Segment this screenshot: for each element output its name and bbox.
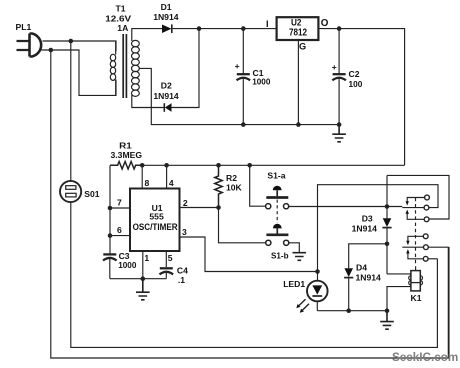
- svg-text:R1: R1: [119, 141, 132, 151]
- svg-text:1: 1: [144, 253, 149, 263]
- node dot D4 bottom: [346, 308, 351, 313]
- label C2 100 plus: [332, 62, 363, 89]
- node dot rail pin4: [164, 163, 169, 168]
- node dot pin7 tap: [108, 206, 113, 211]
- wire plug bottom to primary bottom loop-around: [42, 50, 117, 95]
- svg-text:D3: D3: [362, 214, 373, 224]
- svg-text:T1: T1: [116, 4, 126, 14]
- svg-text:1000: 1000: [118, 260, 136, 270]
- wire pin 7: [110, 207, 130, 209]
- wire secondary bottom to D2 anode: [132, 95, 165, 108]
- svg-text:D1: D1: [161, 2, 172, 12]
- svg-text:LED1: LED1: [283, 279, 305, 289]
- wire R1 left lead down to C3: [109, 165, 111, 253]
- wire U2 output to right corner down to +12V rail: [318, 29, 404, 166]
- node dot ground junction: [385, 308, 390, 313]
- svg-text:555: 555: [149, 211, 164, 221]
- ground symbol bottom right: [380, 311, 394, 330]
- wire pin 2: [180, 207, 219, 209]
- socket SO1: [60, 181, 81, 202]
- diode D3 1N914: [382, 175, 391, 274]
- wire contact set2 middle to outer bottom rail: [428, 247, 448, 358]
- label C1 1000 plus: [235, 61, 271, 86]
- label D2 1N914: [153, 81, 179, 101]
- node dot C2 top: [337, 26, 342, 31]
- diode D1 1N914: [162, 24, 172, 33]
- svg-text:1A: 1A: [117, 23, 128, 33]
- wire contact set2 bottom to inner bottom rail: [428, 258, 437, 260]
- node dot rail pin8: [140, 163, 145, 168]
- IC U2 7812 box: [277, 17, 319, 40]
- wire line-A pin3 node up and right to relay top set middle: [318, 185, 439, 272]
- svg-text:100: 100: [349, 79, 363, 89]
- ground symbol S1-b: [293, 253, 307, 261]
- node dot rail S1-a: [247, 163, 252, 168]
- svg-text:U2: U2: [291, 18, 302, 28]
- transformer T1 secondary winding: [132, 40, 140, 96]
- wire pin 8: [141, 165, 143, 188]
- resistor R2 10K: [215, 165, 223, 207]
- capacitor C1 1000: [237, 29, 251, 125]
- diode D4 1N914: [344, 268, 353, 310]
- pin number labels: [117, 178, 188, 263]
- label D1 1N914: [153, 2, 179, 22]
- wire R2 junction down and right to S1-b: [219, 208, 266, 243]
- svg-text:8: 8: [145, 178, 150, 188]
- wire +12V rail: [142, 164, 404, 166]
- svg-text:+: +: [235, 61, 240, 71]
- svg-text:S1-b: S1-b: [271, 250, 289, 260]
- relay contact set 1 top: [402, 195, 429, 222]
- label R2 10K: [226, 173, 243, 192]
- transformer T1 primary winding: [110, 41, 115, 95]
- switch S1-a: [266, 186, 289, 209]
- svg-text:10K: 10K: [226, 183, 243, 193]
- svg-text:7812: 7812: [289, 27, 307, 38]
- resistor R1 3.3MEG: [110, 162, 142, 170]
- label D3 1N914: [352, 214, 378, 234]
- svg-text:.1: .1: [178, 275, 185, 285]
- capacitor C3 1000: [103, 254, 117, 278]
- node dot pin3/LED junction: [315, 269, 320, 274]
- svg-text:SeekIC.com: SeekIC.com: [392, 351, 458, 364]
- svg-text:S1-a: S1-a: [267, 171, 285, 181]
- node dot D3 D4 branch: [385, 242, 390, 247]
- svg-text:12.6V: 12.6V: [105, 14, 131, 24]
- wire bottom rail C3 to C4: [110, 278, 167, 280]
- wire plug top to transformer primary top: [43, 41, 117, 51]
- node dot D1/D2 junction: [197, 26, 202, 31]
- wire pin 6: [110, 235, 130, 237]
- svg-text:OSC/TIMER: OSC/TIMER: [133, 222, 178, 232]
- svg-text:6: 6: [117, 225, 122, 235]
- capacitor C2 100: [332, 29, 346, 125]
- svg-text:3.3MEG: 3.3MEG: [111, 150, 143, 160]
- svg-text:1000: 1000: [252, 77, 270, 87]
- switch S1-b: [266, 224, 289, 246]
- node dot rail R2: [216, 163, 221, 168]
- svg-text:4: 4: [169, 178, 174, 188]
- wire D2 branch down: [172, 29, 200, 108]
- node dot pin6 tap: [108, 233, 113, 238]
- svg-text:G: G: [299, 42, 306, 52]
- svg-text:1N914: 1N914: [356, 272, 382, 282]
- svg-text:5: 5: [168, 253, 173, 263]
- node dot C1 top: [241, 26, 246, 31]
- wire pin 5 to C4: [165, 251, 167, 267]
- wire D3 top to right contact feed: [387, 175, 449, 219]
- label C4 .1: [177, 265, 188, 285]
- node dot C2 bottom: [337, 122, 342, 127]
- svg-text:D2: D2: [161, 81, 172, 91]
- label C3 1000: [118, 251, 136, 270]
- label U2 7812: [266, 18, 329, 52]
- wire D4 branch: [349, 244, 387, 268]
- wire S1-a right terminal to relay arm bar: [289, 206, 403, 208]
- mechanical dashed link relay: [415, 198, 417, 266]
- IC U1 555 OSC/TIMER box: [130, 189, 180, 252]
- wire pin 4: [166, 165, 168, 188]
- svg-text:S01: S01: [84, 189, 100, 199]
- wire pin 3 to LED junction: [180, 237, 318, 272]
- label T1 12.6V 1A: [105, 4, 131, 34]
- svg-text:K1: K1: [411, 293, 422, 303]
- wire K1 coil bottom lead: [387, 287, 411, 311]
- ground symbol under C2 rail: [332, 125, 346, 142]
- wire pin 1: [142, 251, 144, 279]
- svg-text:7: 7: [117, 197, 122, 207]
- LED1 arrows: [296, 299, 309, 313]
- node dot D3 S1-a line: [385, 204, 390, 209]
- svg-text:2: 2: [183, 198, 188, 208]
- node dot pin2/R2: [216, 205, 221, 210]
- node dot G rail: [296, 122, 301, 127]
- label U1 555 OSC/TIMER: [133, 203, 178, 232]
- relay contact set 2 bottom: [402, 234, 428, 261]
- ground symbol under pin 1: [136, 279, 150, 300]
- wire K1 coil top lead: [387, 273, 411, 275]
- wire S1-b right terminal to ground: [289, 243, 300, 253]
- diode D2 1N914: [164, 103, 171, 112]
- wire LED bottom line to ground junction: [317, 310, 387, 312]
- svg-text:PL1: PL1: [16, 22, 32, 32]
- mechanical dashed link S1-a S1-b: [276, 200, 278, 224]
- svg-text:C4: C4: [177, 265, 188, 275]
- svg-text:I: I: [266, 19, 269, 29]
- wire U2 ground pin: [297, 40, 299, 124]
- transformer T1 core: [123, 34, 126, 98]
- wire AC line 2 down through socket to inner bottom rail: [71, 41, 438, 347]
- node dot C1 bottom: [241, 122, 246, 127]
- svg-text:1N914: 1N914: [153, 12, 179, 22]
- svg-text:3: 3: [182, 227, 187, 237]
- relay coil K1: [409, 266, 423, 291]
- node dot on bottom AC wire: [49, 48, 54, 53]
- wire secondary top to D1: [132, 29, 162, 41]
- svg-text:C2: C2: [349, 69, 360, 79]
- svg-text:1N914: 1N914: [153, 91, 179, 101]
- wire rail to S1-a left terminal: [250, 165, 266, 206]
- node dot on top AC wire: [69, 39, 74, 44]
- svg-text:O: O: [321, 18, 329, 29]
- label D4 1N914: [356, 263, 382, 283]
- svg-text:+: +: [332, 62, 337, 72]
- node dot pin1 bottom rail: [141, 276, 146, 281]
- svg-text:D4: D4: [356, 263, 367, 273]
- wire center tap to ground rail: [139, 68, 339, 124]
- LED LED1: [307, 272, 328, 311]
- wire AC line 1 down left side to bottom rail: [51, 50, 449, 358]
- capacitor C4 .1: [160, 268, 174, 278]
- label R1 3.3MEG: [111, 141, 143, 161]
- plug PL1: [17, 34, 42, 57]
- svg-text:1N914: 1N914: [352, 223, 378, 233]
- wire D1 cathode to U2 input: [172, 28, 277, 30]
